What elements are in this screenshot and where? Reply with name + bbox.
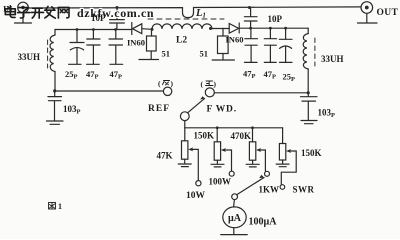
ground (R1) [139,59,159,61]
svg-text:µA: µA [228,213,242,224]
node L2 right end [209,27,212,30]
potentiometer VR4 150K [279,128,285,164]
resistor R2 51 (right) [218,28,229,59]
wire S2 to meter [233,200,236,207]
potentiometer VR3 470K [249,128,255,164]
label (反) [158,79,174,88]
capacitor C10 25p trimmer (right) [279,28,292,62]
wiper VR1 [188,147,198,180]
glyph 电 [5,6,15,18]
wire REF line [55,90,164,92]
svg-text:1KW: 1KW [259,185,280,195]
ground (meter) [221,234,247,236]
svg-text:150K: 150K [194,131,215,141]
ground (VR1) [178,164,191,167]
wire coupling dashed line [148,18,224,20]
terminal SWR [280,185,285,190]
wire main line with L1 pickup loop [28,7,361,18]
core line (L3) [47,40,49,68]
svg-text:REF: REF [148,104,170,114]
svg-text:IN60: IN60 [226,35,244,45]
node right 47p tap B [269,27,272,30]
terminal 10W [196,181,201,186]
terminal 100W [229,171,234,176]
wiper VR4 [281,149,296,185]
ground (VR3) [246,164,259,167]
wire L2 to D2 [212,28,229,30]
label (正) [201,80,217,89]
svg-text:100µA: 100µA [249,217,278,228]
svg-text:33UH: 33UH [18,52,41,62]
capacitor C9 47p (right B) [264,28,276,62]
inductor L2 [152,24,212,29]
switch S2 arm (to 1KW) [237,175,264,195]
diode D2 IN60 (right, cathode right) [229,23,308,33]
capacitor C7 103p (right) [301,93,318,120]
switch S2 pivot [232,194,238,200]
terminal 1KW [265,171,270,176]
watermark 电子开发网 dzkfw.com.cn [5,6,154,20]
node left 47p tap A [92,28,95,31]
potentiometer VR2 150K [214,128,220,164]
inductor L4 33UH (right) [303,28,308,93]
capacitor C4 47p (left A) [87,30,100,64]
svg-text:10W: 10W [186,191,206,201]
label fig 图1 [49,203,56,210]
node bus pot3 [251,126,254,129]
svg-text:33UH: 33UH [321,54,344,64]
capacitor C5 47p (left B) [109,30,123,64]
ground (C4) [87,63,100,65]
wiper VR2 [221,148,232,171]
resistor R1 51 (left) [147,30,157,59]
ground (C8) [245,61,258,63]
svg-text:1: 1 [58,202,62,211]
ground (OUT shield) [358,14,378,24]
svg-text:51: 51 [162,49,171,59]
ground (C5) [110,63,123,65]
node left 25p tap [76,28,79,31]
svg-text:470K: 470K [231,131,252,141]
svg-text:47K: 47K [157,151,173,161]
glyph 开 [31,8,43,18]
meter M1 [223,207,246,228]
connector J2 OUT [361,2,373,14]
diode D1 IN60 (left, cathode left) [132,23,152,35]
capacitor C2 10P (right) [244,8,257,29]
potentiometer VR1 47K [182,128,188,164]
svg-text:10P: 10P [91,13,106,23]
glyph 网 [58,7,69,18]
ground (VR4) [276,164,289,167]
wire left detector line [55,29,132,31]
wire pot bus [185,127,283,129]
node REF junction [53,89,56,92]
node bus pot2 [216,126,219,129]
node top-right 10P tap [248,6,251,9]
node top-left 10P tap [116,6,119,9]
svg-text:SWR: SWR [293,184,315,194]
capacitor C1 10P (left) [110,8,125,30]
svg-text:10P: 10P [268,14,283,24]
switch S1 arm (to FWD) [188,96,205,113]
connector J1 IN [18,2,29,13]
wire meter to ground [233,228,235,234]
svg-text:F WD.: F WD. [207,104,237,114]
wire S1 to bus [184,121,186,128]
svg-text:dzkfw.com.cn: dzkfw.com.cn [77,6,154,20]
ground (C7) [301,121,317,124]
core line (L4) [314,38,316,66]
node right 47p tap A [249,27,252,30]
ground (C10) [280,61,293,63]
capacitor C6 103p (left) [48,91,62,120]
node left 47p/10P tap B [114,28,117,31]
capacitor C8 47p (right A) [245,28,258,62]
svg-text:IN60: IN60 [127,37,145,47]
switch S1 common [180,112,189,121]
svg-text:L2: L2 [176,36,187,46]
wire FWD line [214,92,308,94]
capacitor C3 25p trimmer (left) [70,30,84,64]
ground (C6) [47,121,64,124]
wiper VR3 [256,148,265,171]
ground (C9) [264,61,276,63]
svg-text:OUT: OUT [377,8,399,18]
svg-text:51: 51 [200,48,209,58]
ground (IN shield) [15,13,32,23]
svg-text:150K: 150K [301,148,322,158]
ground (R2) [212,59,234,61]
ground (C3) [69,63,81,65]
glyph 子 [18,8,30,18]
svg-text:100W: 100W [209,176,232,186]
node right 25p tap [284,27,287,30]
inductor L3 33UH (left) [50,30,55,91]
node L2 left end [151,28,154,31]
ground (VR2) [211,164,224,167]
glyph 发 [45,6,56,18]
terminal REF [163,87,171,95]
node FWD junction [307,91,310,94]
terminal FWD [205,88,214,97]
